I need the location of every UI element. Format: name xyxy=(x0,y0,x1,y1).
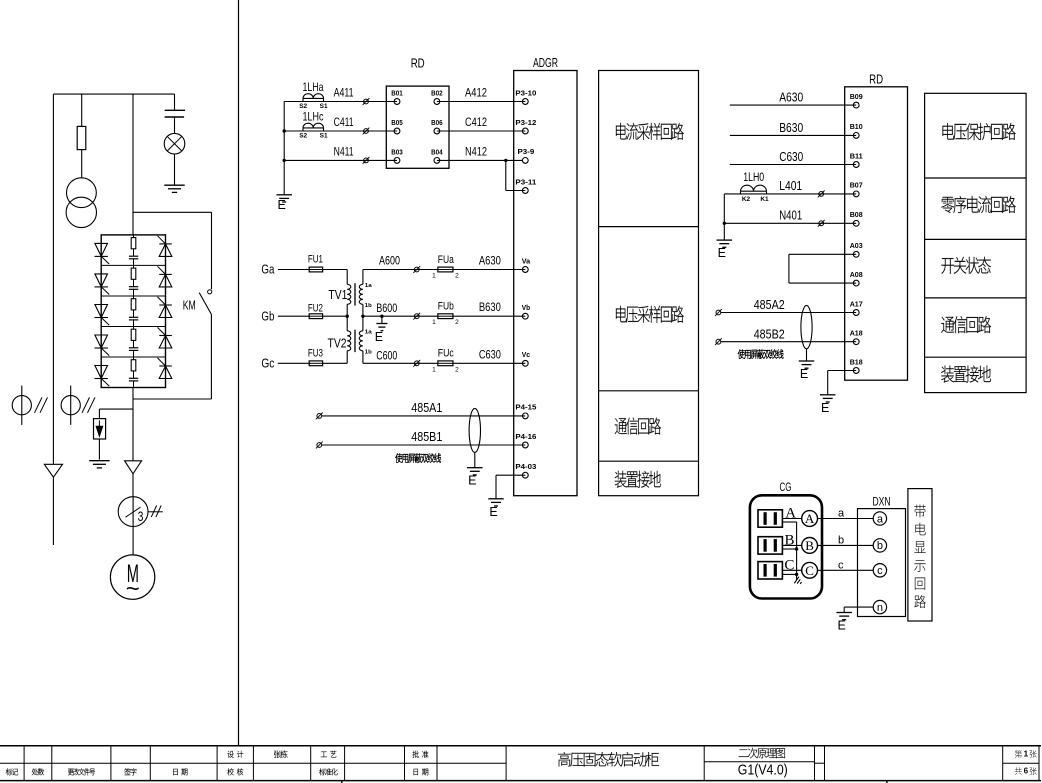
wire 485B1 xyxy=(322,444,526,446)
title block vertical 13 xyxy=(824,746,826,781)
ground B18 xyxy=(820,394,836,396)
title sheet type xyxy=(739,748,785,759)
svg-text:P3-9: P3-9 xyxy=(518,147,535,156)
wire top bus xyxy=(53,93,174,95)
wire arrester to ground xyxy=(98,439,100,460)
contactor KM blade xyxy=(199,293,211,315)
svg-text:C600: C600 xyxy=(376,348,397,362)
svg-text:TV1: TV1 xyxy=(328,288,347,302)
wire KM branch horizontal xyxy=(133,211,212,213)
svg-text:FU1: FU1 xyxy=(308,254,323,266)
capacitor C1 snubber xyxy=(129,255,138,257)
svg-text:B07: B07 xyxy=(850,181,863,190)
svg-text:FUb: FUb xyxy=(438,301,454,313)
wire fuse to transformer xyxy=(81,150,83,178)
title block bottom border xyxy=(0,780,1041,782)
svg-text:Gc: Gc xyxy=(261,357,274,371)
terminal Vb of ADGR xyxy=(522,313,528,319)
wire c xyxy=(818,569,874,571)
wire KM to main line xyxy=(133,398,211,400)
ground lamp branch xyxy=(164,184,184,186)
svg-text:FU2: FU2 xyxy=(308,302,323,314)
transformer TV2 secondary winding xyxy=(362,316,364,331)
wire thyristor row divider 4 xyxy=(101,356,165,358)
terminal slash C411 xyxy=(364,129,369,134)
svg-text:C412: C412 xyxy=(465,115,487,129)
function divider 1 xyxy=(599,226,699,228)
label riqi 1 xyxy=(173,768,187,775)
terminal circled A xyxy=(802,511,818,527)
terminal A08 of RD right xyxy=(853,280,859,286)
wire A411 xyxy=(284,101,397,103)
svg-text:A17: A17 xyxy=(850,299,863,308)
wire FU1 to TV1 primary xyxy=(323,269,348,271)
svg-text:1a: 1a xyxy=(365,330,373,336)
terminal slash N401 xyxy=(819,221,824,226)
wire ground bus current CTs xyxy=(283,102,285,195)
wire b xyxy=(818,544,874,546)
terminal B03 of RD xyxy=(394,158,400,164)
terminal B05 of RD xyxy=(394,128,400,134)
ground arrester xyxy=(89,460,109,462)
wire sensor A to terminal xyxy=(782,518,801,520)
live display sensor CG box xyxy=(750,495,822,598)
wire left incoming drop xyxy=(52,94,54,464)
node junction N411 bus xyxy=(283,159,286,162)
transformer T primary circle xyxy=(67,178,97,208)
svg-text:b: b xyxy=(877,540,883,552)
meter needle slash xyxy=(126,507,141,517)
indicator lamp HL xyxy=(164,133,185,154)
wire snubber R2 up xyxy=(133,265,135,268)
meter cable stub with slashes xyxy=(148,511,163,513)
label zero-sequence current circuit xyxy=(941,196,1016,213)
svg-text:S2: S2 xyxy=(299,132,307,139)
capacitor C5 snubber xyxy=(129,377,138,379)
resistor R3 snubber xyxy=(131,299,136,310)
capacitive sensor C xyxy=(758,562,782,579)
title block vertical 7 xyxy=(344,746,346,781)
fuse FUa xyxy=(438,267,453,272)
svg-text:CG: CG xyxy=(780,480,792,494)
wire through meter xyxy=(132,497,134,527)
terminal A03 of RD right xyxy=(853,251,859,257)
terminal circled B xyxy=(802,538,818,554)
svg-text:1b: 1b xyxy=(365,303,373,309)
label sheet total xyxy=(1015,767,1022,774)
wire B600 xyxy=(363,315,438,317)
svg-text:Vb: Vb xyxy=(522,303,531,312)
svg-text:E: E xyxy=(278,198,286,212)
label voltage sampling circuit xyxy=(616,306,684,323)
title block vertical 12 xyxy=(814,746,816,781)
title block vertical 11 xyxy=(703,746,705,781)
wire snubber R4 up xyxy=(133,327,135,330)
terminal Vc of ADGR xyxy=(522,360,528,366)
wire meter to motor xyxy=(132,526,134,555)
svg-text:b: b xyxy=(838,534,844,546)
transformer TV1 core xyxy=(354,283,356,305)
svg-text:B06: B06 xyxy=(431,118,443,127)
svg-text:E: E xyxy=(800,367,808,381)
svg-text:B600: B600 xyxy=(376,301,397,315)
svg-text:c: c xyxy=(838,559,844,571)
label device grounding right xyxy=(941,365,991,382)
node junction N412 branch xyxy=(504,159,507,162)
svg-text:a: a xyxy=(877,513,884,525)
label genggai wenjianhao xyxy=(68,768,95,775)
wire C412 xyxy=(437,130,525,132)
terminal block RD right box xyxy=(845,87,908,380)
thyristor stack enclosure xyxy=(101,235,165,388)
wire A600 xyxy=(363,269,438,271)
title block vertical 10 xyxy=(505,746,507,781)
label riqi 2 xyxy=(414,768,429,775)
svg-text:1LHc: 1LHc xyxy=(303,110,324,124)
svg-text:A630: A630 xyxy=(479,254,501,268)
wire thyristor row divider 1 xyxy=(101,264,165,266)
svg-text:B08: B08 xyxy=(850,210,863,219)
svg-text:KM: KM xyxy=(183,297,196,312)
svg-text:c: c xyxy=(877,565,883,577)
svg-text:E: E xyxy=(468,474,476,488)
svg-text:B01: B01 xyxy=(391,88,403,97)
svg-text:A: A xyxy=(785,506,796,522)
label switch state xyxy=(941,257,990,274)
node junction sensor C common xyxy=(795,573,798,576)
thyristor V1L left xyxy=(95,243,108,256)
current transformer 1LHa xyxy=(303,97,324,99)
svg-text:B03: B03 xyxy=(391,147,403,156)
svg-text:A412: A412 xyxy=(465,86,487,100)
contactor KM fixed contact xyxy=(208,290,212,294)
terminal B08 of RD right xyxy=(853,220,859,226)
note use shielded twisted pair 1 xyxy=(395,453,441,462)
border section divider xyxy=(238,0,240,746)
fuse FUb xyxy=(438,314,453,319)
capacitor lamp-branch plate2 xyxy=(165,116,185,118)
wire sensor common bus xyxy=(782,521,796,523)
title block top border xyxy=(0,745,1041,747)
svg-text:B: B xyxy=(784,533,794,549)
terminal slash N411 xyxy=(364,158,369,163)
title block vertical 6 xyxy=(310,746,312,781)
ground E current CT bus xyxy=(276,194,292,196)
wire lamp branch xyxy=(174,94,176,110)
wire left drop continuation xyxy=(52,477,54,545)
function divider 2 xyxy=(599,390,699,392)
wire B600 ground stub xyxy=(381,316,383,323)
frame tick below title 1 xyxy=(341,781,343,783)
ground B600 xyxy=(376,323,387,325)
svg-text:L401: L401 xyxy=(779,179,802,193)
wire N401 xyxy=(724,222,856,224)
svg-text:Gb: Gb xyxy=(261,309,274,323)
thyristor V4L left xyxy=(95,335,108,348)
terminal slash 485B2 left xyxy=(716,339,721,344)
svg-text:3: 3 xyxy=(138,509,144,524)
terminal P3-12 of ADGR xyxy=(522,128,528,134)
wire KM lower vertical xyxy=(210,314,212,399)
svg-text:P3-12: P3-12 xyxy=(515,118,536,127)
wire L401 xyxy=(724,193,856,195)
wire A630 xyxy=(453,269,525,271)
function divider right 4 xyxy=(925,356,1027,358)
svg-text:N401: N401 xyxy=(779,208,802,222)
current transformer 1LH0 xyxy=(741,190,767,192)
terminal B04 of RD xyxy=(434,158,440,164)
svg-text:a: a xyxy=(838,508,845,520)
thyristor V1R right xyxy=(159,244,172,257)
meter 3-phase circle xyxy=(118,497,148,527)
label current sampling circuit xyxy=(616,123,684,140)
svg-text:B11: B11 xyxy=(850,151,863,160)
wire FU2 to TV junction xyxy=(323,315,348,317)
svg-text:P4-15: P4-15 xyxy=(515,403,536,412)
terminal P4-16 of ADGR xyxy=(522,442,528,448)
terminal B10 of RD right xyxy=(853,133,859,139)
wire snubber R4 to C4 xyxy=(133,340,135,347)
ground shield 485-2 xyxy=(799,360,815,362)
wire lamp to ground xyxy=(174,154,176,185)
terminal P4-15 of ADGR xyxy=(522,413,528,419)
svg-text:485B2: 485B2 xyxy=(754,327,785,341)
svg-text:1: 1 xyxy=(432,273,436,280)
function label box middle xyxy=(599,71,699,496)
svg-text:FUc: FUc xyxy=(438,348,454,360)
wire B18 ground link xyxy=(828,370,857,372)
terminal slash A411 xyxy=(364,99,369,104)
wire P4-03 ground link xyxy=(496,474,525,476)
svg-text:P4-16: P4-16 xyxy=(515,432,536,441)
current transformer symbol LH1 circle xyxy=(12,396,31,415)
label chushu xyxy=(32,768,44,775)
terminal B01 of RD xyxy=(394,99,400,105)
terminal slash A600 xyxy=(414,267,419,272)
device DXN box xyxy=(858,509,906,617)
svg-text:ADGR: ADGR xyxy=(533,56,558,70)
fuse FUc xyxy=(438,361,453,366)
label gongyi xyxy=(321,751,336,758)
svg-text:E: E xyxy=(375,330,383,344)
svg-text:Vc: Vc xyxy=(522,350,530,359)
node junction C411 bus xyxy=(283,129,286,132)
wire snubber R1 to C1 xyxy=(133,249,135,256)
terminal slash 485A1 left xyxy=(317,414,322,419)
current transformer 1LHc xyxy=(303,127,324,129)
frame tick below title 2 xyxy=(886,781,888,783)
label sheji xyxy=(227,751,243,758)
node junction Vb TV secondary xyxy=(361,315,364,318)
cable arrow main xyxy=(125,461,142,474)
title block vertical 9 xyxy=(436,746,438,781)
wire 485B2 xyxy=(721,341,856,343)
svg-text:A: A xyxy=(805,511,815,526)
svg-text:P3-10: P3-10 xyxy=(515,88,536,97)
fuse FU1 xyxy=(309,267,322,272)
wire A630 right xyxy=(730,104,856,106)
current transformer LH2 primary line xyxy=(70,386,72,425)
transformer TV1 primary winding xyxy=(346,270,348,285)
title block vertical 5 xyxy=(252,746,254,781)
terminal circled c DXN xyxy=(873,564,886,577)
resistor R5 snubber xyxy=(131,360,136,371)
label live display circuit box xyxy=(908,489,932,621)
terminal slash 485A2 left xyxy=(716,310,721,315)
terminal slash 485B1 left xyxy=(317,443,322,448)
wire Gb to FU2 xyxy=(278,315,309,317)
label communication circuit middle xyxy=(615,417,661,434)
svg-text:485A2: 485A2 xyxy=(754,298,785,312)
terminal slash L401 xyxy=(819,192,824,197)
wire fuse branch upper xyxy=(81,94,83,126)
label jiaohe xyxy=(227,768,243,775)
wire snubber R3 up xyxy=(133,296,135,299)
wire Ga to FU1 xyxy=(278,269,309,271)
svg-text:485A1: 485A1 xyxy=(411,401,442,415)
terminal circled a DXN xyxy=(873,512,886,525)
terminal circled b DXN xyxy=(873,539,886,552)
terminal P3-11 of ADGR xyxy=(522,188,528,194)
svg-text:Va: Va xyxy=(522,256,531,265)
svg-text:FU3: FU3 xyxy=(308,348,323,360)
title block vertical 14 xyxy=(1002,746,1004,781)
wire Gc to FU3 xyxy=(278,362,309,364)
function label box right xyxy=(925,93,1027,392)
svg-text:E: E xyxy=(838,619,846,633)
svg-text:B05: B05 xyxy=(391,118,403,127)
wire snubber R3 to C3 xyxy=(133,310,135,317)
svg-text:E: E xyxy=(821,401,829,415)
wire snubber R5 up xyxy=(133,357,135,360)
device ADGR box xyxy=(514,71,577,496)
svg-text:A600: A600 xyxy=(379,254,400,268)
wire snubber C2 down xyxy=(133,289,135,296)
transformer TV2 core xyxy=(354,330,356,352)
label voltage protection circuit xyxy=(942,123,1015,140)
resistor R4 snubber xyxy=(131,329,136,340)
svg-text:A411: A411 xyxy=(334,86,354,100)
svg-text:1LH0: 1LH0 xyxy=(743,172,764,184)
node junction N401 ground xyxy=(723,222,726,225)
svg-text:2: 2 xyxy=(455,273,459,280)
current transformer LH1 primary line xyxy=(21,386,23,425)
svg-text:C: C xyxy=(805,563,814,578)
svg-text:K1: K1 xyxy=(760,196,769,203)
wire snubber R1 up xyxy=(133,235,135,238)
thyristor V5R right xyxy=(159,366,172,379)
wire a xyxy=(818,518,874,520)
terminal slash C600 xyxy=(414,361,419,366)
svg-text:A18: A18 xyxy=(850,329,863,338)
svg-text:B04: B04 xyxy=(431,147,443,156)
ground 1LH0 xyxy=(717,239,733,241)
svg-text:FUa: FUa xyxy=(438,254,455,266)
wire C630 right xyxy=(730,164,856,166)
wire snubber C1 down xyxy=(133,259,135,266)
svg-text:B: B xyxy=(805,538,814,553)
svg-text:2: 2 xyxy=(455,366,459,373)
title block mid line xyxy=(0,762,506,764)
svg-text:C630: C630 xyxy=(779,149,803,164)
wire n to ground xyxy=(844,606,873,608)
terminal B06 of RD xyxy=(434,128,440,134)
svg-text:E: E xyxy=(718,246,726,260)
wire A03-A08 jumper xyxy=(789,253,856,255)
wire sensor B to terminal xyxy=(782,544,801,546)
wire N412 xyxy=(437,159,506,161)
capacitive sensor B xyxy=(758,537,782,554)
label biaozhunhua xyxy=(319,768,337,775)
terminal slash B600 xyxy=(414,314,419,319)
svg-text:RD: RD xyxy=(869,72,883,86)
svg-text:K2: K2 xyxy=(742,196,751,203)
fuse FU3 xyxy=(309,361,322,366)
arrester F arrow xyxy=(98,421,100,428)
terminal B18 of RD right xyxy=(853,368,859,374)
wire arrow to meter xyxy=(132,474,134,497)
wire snubber R5 to C5 xyxy=(133,371,135,378)
thyristor V2L left xyxy=(95,274,108,287)
node junction Gb TV1 primary xyxy=(346,315,349,318)
wire snubber C3 down xyxy=(133,320,135,327)
svg-text:P3-11: P3-11 xyxy=(515,177,536,186)
thyristor V3L left xyxy=(95,305,108,318)
ground sensor common small xyxy=(794,577,803,587)
resistor R1 snubber xyxy=(131,238,136,249)
svg-text:1b: 1b xyxy=(365,350,373,356)
svg-text:RD: RD xyxy=(411,57,425,71)
function divider right 1 xyxy=(925,177,1027,179)
wire shield drain 485-1 xyxy=(474,452,476,467)
capacitor C3 snubber xyxy=(129,316,138,318)
svg-text:C: C xyxy=(784,558,794,574)
wire C411 xyxy=(284,130,397,132)
transformer T secondary circle xyxy=(66,197,96,227)
svg-text:C411: C411 xyxy=(334,115,354,129)
svg-text:n: n xyxy=(877,602,883,614)
svg-text:A630: A630 xyxy=(779,90,803,105)
svg-text:N412: N412 xyxy=(465,144,487,158)
svg-text:2: 2 xyxy=(455,319,459,326)
capacitor C2 snubber xyxy=(129,286,138,288)
wire 1LH0 ground bus xyxy=(723,194,725,240)
label communication circuit right xyxy=(941,316,991,333)
svg-text:DXN: DXN xyxy=(873,495,891,509)
svg-text:B10: B10 xyxy=(850,122,863,131)
capacitor lamp-branch plate1 xyxy=(165,109,186,111)
wire sensor C to terminal xyxy=(782,569,801,571)
terminal B02 of RD xyxy=(434,99,440,105)
svg-text:TV2: TV2 xyxy=(328,337,347,351)
label sheet number xyxy=(1015,750,1022,758)
terminal circled C xyxy=(802,562,818,578)
svg-text:S1: S1 xyxy=(320,132,328,139)
motor M circle xyxy=(110,555,154,599)
terminal B09 of RD right xyxy=(853,102,859,108)
svg-text:485B1: 485B1 xyxy=(411,430,442,444)
wire N412 to P3-11 xyxy=(505,160,507,190)
thyristor V4R right xyxy=(159,336,172,349)
wire main line below stack xyxy=(132,388,134,461)
function divider right 3 xyxy=(925,297,1027,299)
wire arrester branch horizontal xyxy=(99,408,133,410)
arrester F body xyxy=(94,419,106,439)
terminal A17 of RD right xyxy=(853,310,859,316)
wire snubber R2 to C2 xyxy=(133,279,135,286)
note use shielded twisted pair 2 xyxy=(738,349,784,358)
svg-text:B630: B630 xyxy=(779,120,803,135)
